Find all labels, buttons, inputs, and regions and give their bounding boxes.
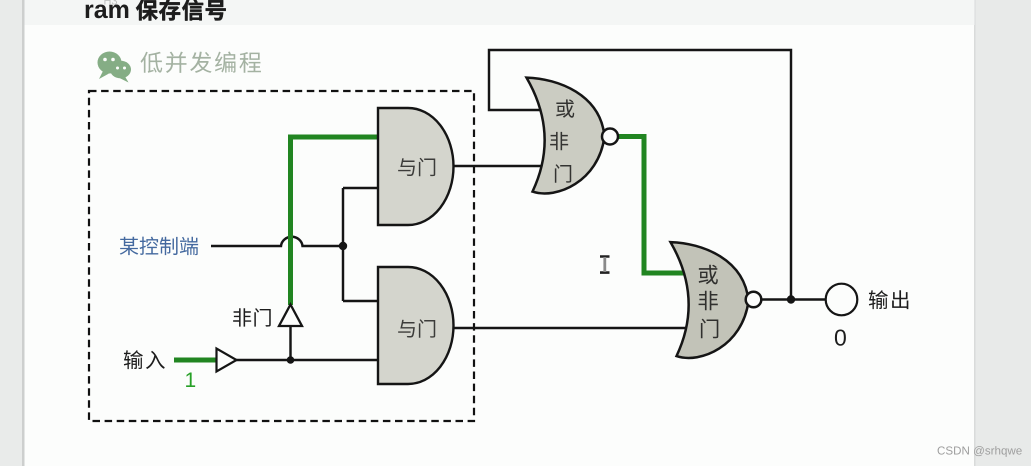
输入 label	[124, 350, 143, 369]
CSDN watermark	[938, 446, 945, 454]
AND gate bottom (与门)	[378, 267, 454, 384]
wire: green top NOR output down to bottom NOR input 1	[618, 137, 690, 274]
text cursor I-beam	[600, 257, 610, 273]
非门 label	[233, 308, 251, 326]
dashed boundary box	[89, 91, 474, 421]
junction: control/vertical	[339, 242, 347, 250]
inversion bubble bottom NOR	[746, 292, 762, 308]
wire: bottom NOR output to output node	[761, 298, 827, 300]
wire: input line to bottom AND input 2	[236, 359, 378, 361]
NOR gate bottom (或非门)	[671, 242, 749, 358]
wire: top AND output to top NOR input 2	[454, 165, 545, 167]
AND gate top (与门)	[378, 108, 454, 225]
wire: vertical between AND inputs	[342, 188, 344, 301]
top faint band	[25, 0, 975, 25]
junction: input/NOT branch	[287, 356, 295, 364]
NOT gate (非门) triangle	[279, 305, 302, 327]
value 0	[835, 329, 846, 345]
wire: control line with hop over green	[211, 237, 343, 246]
wire: to top AND input 2	[343, 187, 378, 189]
right sidebar strip	[975, 0, 1031, 466]
输出 label	[869, 290, 888, 309]
left sidebar strip	[0, 0, 22, 466]
value 1 (green)	[186, 373, 195, 387]
input arrow triangle	[217, 349, 237, 372]
wire: feedback from output node to top NOR input 1	[489, 50, 791, 300]
NOR gate top (或非门)	[527, 78, 605, 194]
wire: branch up to NOT gate	[289, 326, 291, 360]
wire: bottom AND output to bottom NOR input 2	[454, 327, 688, 329]
wire: green input segment	[174, 358, 216, 363]
wire: green from NOT output up and right to top AND input 1	[291, 137, 379, 305]
output node circle	[826, 284, 858, 316]
wire: to bottom AND input 1	[343, 300, 378, 302]
某控制端 label (blue)	[120, 237, 139, 255]
inversion bubble top NOR	[602, 129, 618, 145]
低并发编程 label	[141, 52, 163, 73]
H3 heading marker (faint)	[104, 0, 110, 5]
title: ram 保存信号	[86, 5, 94, 18]
wechat logo icon	[98, 52, 132, 83]
junction: feedback tap	[787, 295, 795, 303]
